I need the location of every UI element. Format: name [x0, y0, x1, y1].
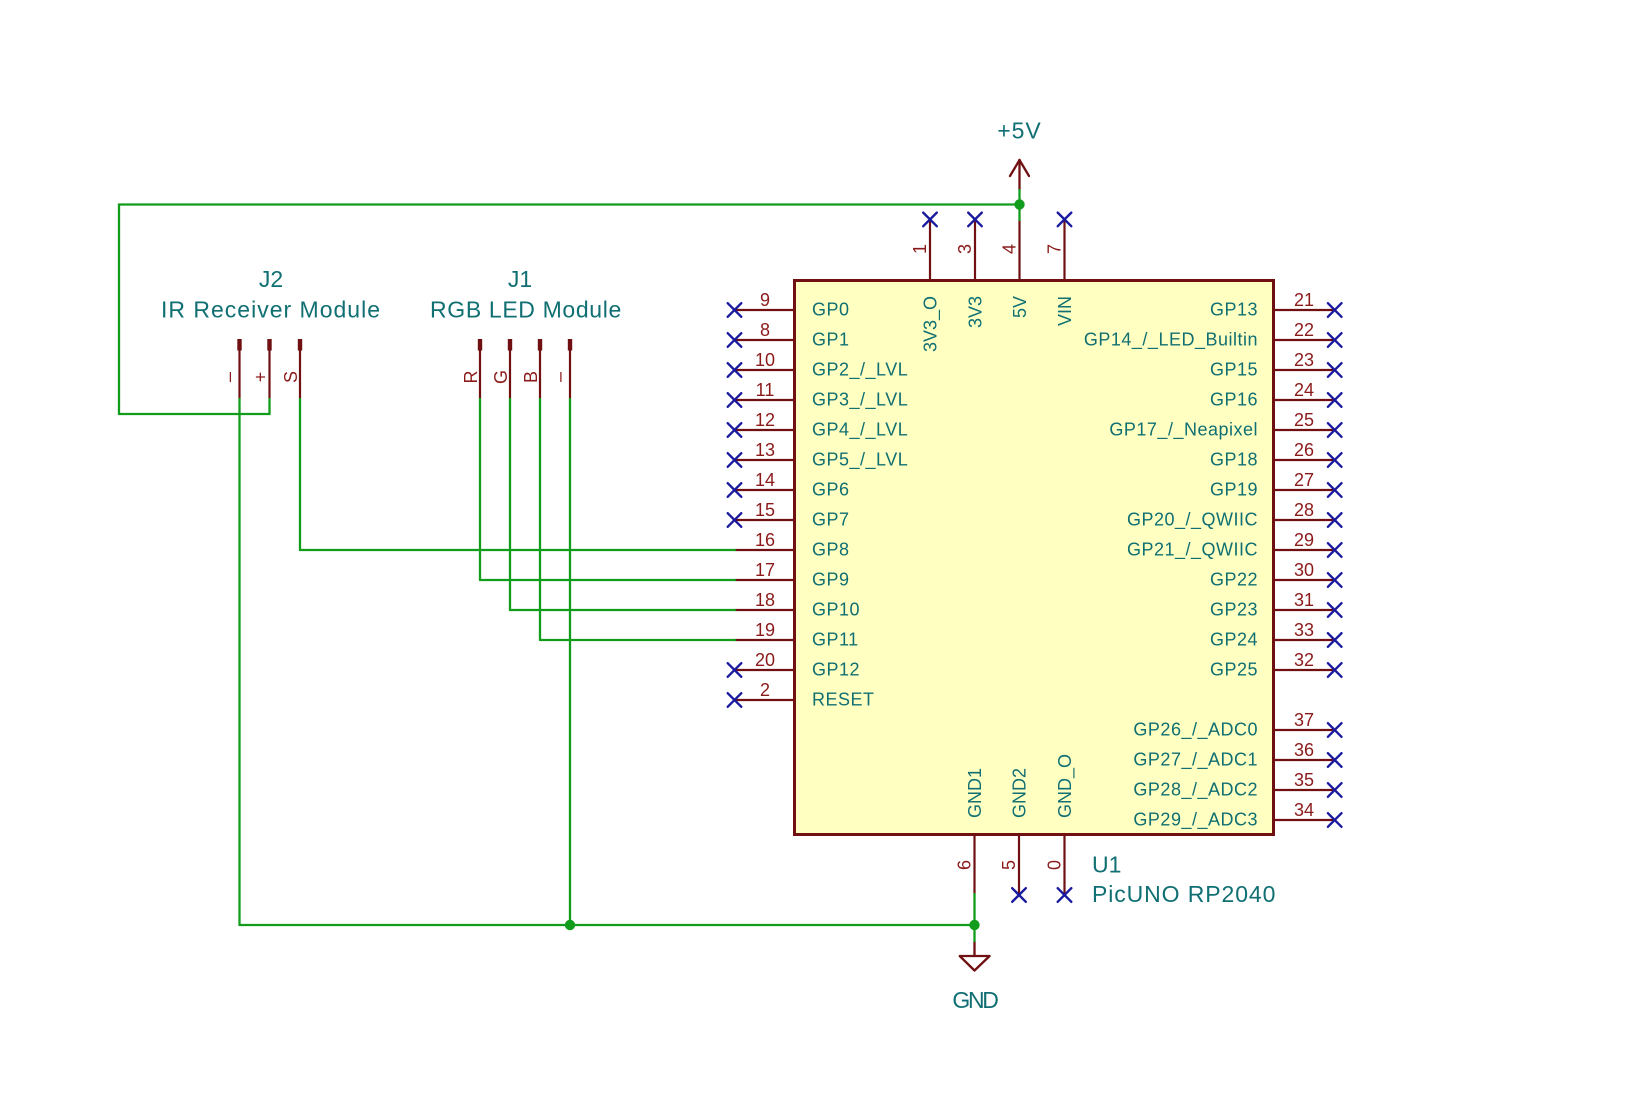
- svg-text:G: G: [491, 370, 511, 384]
- svg-text:33: 33: [1294, 620, 1314, 640]
- pin 25 (GP17_/_Neapixel) right: [1109, 410, 1341, 441]
- pin 12 (GP4_/_LVL) left: [728, 410, 909, 441]
- svg-text:20: 20: [755, 650, 775, 670]
- svg-text:GP18: GP18: [1210, 450, 1258, 470]
- svg-text:7: 7: [1045, 244, 1065, 254]
- wire J2 minus vertical: [238, 399, 240, 925]
- svg-text:24: 24: [1294, 380, 1314, 400]
- svg-text:U1: U1: [1092, 852, 1121, 878]
- svg-text:30: 30: [1294, 560, 1314, 580]
- svg-text:+: +: [251, 372, 271, 383]
- svg-text:GP28_/_ADC2: GP28_/_ADC2: [1133, 780, 1258, 801]
- svg-text:3V3: 3V3: [965, 296, 985, 328]
- svg-text:17: 17: [755, 560, 775, 580]
- svg-text:27: 27: [1294, 470, 1314, 490]
- pin 16 (GP8) left: [735, 530, 850, 560]
- pin 33 (GP24) right: [1210, 620, 1342, 650]
- pin 14 (GP6) left: [728, 470, 850, 500]
- wire +5V horizontal top: [119, 203, 1020, 205]
- wire R to GP9 horizontal: [480, 579, 735, 581]
- svg-text:GP20_/_QWIIC: GP20_/_QWIIC: [1127, 510, 1258, 531]
- pin 30 (GP22) right: [1210, 560, 1342, 590]
- pin 3 (3V3) top: [955, 213, 985, 328]
- svg-text:0: 0: [1045, 860, 1065, 870]
- pin 1 (3V3_O) top: [910, 213, 941, 352]
- svg-text:GP15: GP15: [1210, 360, 1258, 380]
- svg-text:11: 11: [756, 380, 775, 400]
- svg-text:18: 18: [755, 590, 775, 610]
- svg-text:8: 8: [760, 320, 770, 340]
- svg-text:15: 15: [755, 500, 775, 520]
- svg-text:16: 16: [755, 530, 775, 550]
- wire J2 plus vertical: [268, 399, 270, 414]
- svg-text:5V: 5V: [1010, 296, 1030, 318]
- svg-text:19: 19: [755, 620, 775, 640]
- wire J1 minus vertical: [569, 399, 571, 925]
- wire GND1 vertical: [973, 894, 975, 941]
- J1 pin G: [491, 339, 512, 399]
- svg-text:GP9: GP9: [812, 570, 850, 590]
- svg-text:1: 1: [910, 244, 930, 254]
- J2 pin +: [251, 339, 272, 399]
- pin 10 (GP2_/_LVL) left: [728, 350, 909, 381]
- pin 34 (GP29_/_ADC3) right: [1133, 800, 1341, 831]
- pin 8 (GP1) left: [728, 320, 850, 350]
- pin 15 (GP7) left: [728, 500, 850, 530]
- pin 17 (GP9) left: [735, 560, 850, 590]
- svg-text:R: R: [461, 371, 481, 384]
- pin 13 (GP5_/_LVL) left: [728, 440, 909, 471]
- pin 27 (GP19) right: [1210, 470, 1342, 500]
- svg-text:3V3_O: 3V3_O: [920, 296, 941, 352]
- svg-text:GP17_/_Neapixel: GP17_/_Neapixel: [1109, 420, 1258, 441]
- J2 pin S: [281, 339, 302, 399]
- pin 21 (GP13) right: [1210, 290, 1342, 320]
- wire S to GP8 horizontal: [300, 549, 735, 551]
- svg-text:GP11: GP11: [812, 630, 859, 650]
- pin 29 (GP21_/_QWIIC) right: [1127, 530, 1342, 561]
- wire +5V vertical at power symbol: [1018, 190, 1020, 220]
- svg-text:B: B: [521, 371, 541, 383]
- svg-text:14: 14: [755, 470, 775, 490]
- pin 0 (GND_O) bottom: [1045, 754, 1076, 902]
- pin 26 (GP18) right: [1210, 440, 1342, 470]
- pin 36 (GP27_/_ADC1) right: [1133, 740, 1341, 771]
- svg-text:GND_O: GND_O: [1055, 754, 1076, 818]
- svg-text:23: 23: [1294, 350, 1314, 370]
- svg-text:3: 3: [955, 244, 975, 254]
- svg-text:GND: GND: [952, 987, 998, 1013]
- pin 20 (GP12) left: [728, 650, 860, 680]
- wire J2 S vertical: [299, 399, 301, 550]
- pin 22 (GP14_/_LED_Builtin) right: [1084, 320, 1342, 351]
- svg-text:GP4_/_LVL: GP4_/_LVL: [812, 420, 908, 441]
- pin 35 (GP28_/_ADC2) right: [1133, 770, 1341, 801]
- pin 2 (RESET) left: [728, 680, 875, 710]
- svg-text:GP26_/_ADC0: GP26_/_ADC0: [1133, 720, 1258, 741]
- svg-text:12: 12: [755, 410, 775, 430]
- pin 24 (GP16) right: [1210, 380, 1342, 410]
- svg-text:–: –: [550, 372, 570, 382]
- svg-text:GP14_/_LED_Builtin: GP14_/_LED_Builtin: [1084, 330, 1258, 351]
- svg-text:29: 29: [1294, 530, 1314, 550]
- svg-text:GP27_/_ADC1: GP27_/_ADC1: [1133, 750, 1258, 771]
- svg-text:GP19: GP19: [1210, 480, 1258, 500]
- svg-text:10: 10: [755, 350, 775, 370]
- junction ground bus / GND1: [969, 920, 979, 930]
- IC U1 body: [795, 281, 1274, 835]
- svg-text:GP2_/_LVL: GP2_/_LVL: [812, 360, 908, 381]
- svg-text:–: –: [219, 372, 239, 382]
- svg-text:35: 35: [1294, 770, 1314, 790]
- pin 18 (GP10) left: [735, 590, 860, 620]
- J1 pin R: [461, 339, 482, 399]
- svg-text:28: 28: [1294, 500, 1314, 520]
- svg-text:31: 31: [1294, 590, 1314, 610]
- svg-text:IR Receiver Module: IR Receiver Module: [161, 297, 381, 323]
- svg-text:37: 37: [1294, 710, 1314, 730]
- J1 pin –: [550, 339, 573, 399]
- svg-text:GP6: GP6: [812, 480, 850, 500]
- svg-text:GP7: GP7: [812, 510, 850, 530]
- J1 pin B: [521, 339, 542, 399]
- svg-text:25: 25: [1294, 410, 1314, 430]
- wire J1 B vertical: [539, 399, 541, 640]
- svg-text:34: 34: [1294, 800, 1314, 820]
- svg-text:21: 21: [1294, 290, 1314, 310]
- svg-text:RESET: RESET: [812, 690, 875, 710]
- wire J1 G vertical: [509, 399, 511, 610]
- pin 37 (GP26_/_ADC0) right: [1133, 710, 1341, 741]
- svg-text:5: 5: [999, 860, 1019, 870]
- ground symbol GND: [952, 941, 998, 1013]
- pin 11 (GP3_/_LVL) left: [728, 380, 909, 411]
- junction J1 minus / ground bus: [565, 920, 575, 930]
- pin 19 (GP11) left: [735, 620, 859, 650]
- svg-text:4: 4: [1000, 244, 1020, 254]
- power symbol +5V: [997, 118, 1042, 191]
- svg-text:S: S: [281, 371, 301, 383]
- pin 31 (GP23) right: [1210, 590, 1342, 620]
- svg-text:GP29_/_ADC3: GP29_/_ADC3: [1133, 810, 1258, 831]
- pin 32 (GP25) right: [1210, 650, 1342, 680]
- junction at +5V pin 4: [1014, 199, 1024, 209]
- wire B to GP11 horizontal: [540, 639, 735, 641]
- pin 28 (GP20_/_QWIIC) right: [1127, 500, 1342, 531]
- wire G to GP10 horizontal: [510, 609, 735, 611]
- wire +5V lower horizontal to J2 plus: [119, 413, 270, 415]
- svg-text:GP23: GP23: [1210, 600, 1258, 620]
- J2 pin –: [219, 339, 242, 399]
- pin 6 (GND1) bottom: [955, 768, 985, 894]
- svg-text:GP21_/_QWIIC: GP21_/_QWIIC: [1127, 540, 1258, 561]
- svg-text:VIN: VIN: [1055, 296, 1075, 326]
- svg-text:9: 9: [760, 290, 770, 310]
- svg-text:GP13: GP13: [1210, 300, 1258, 320]
- svg-text:GP24: GP24: [1210, 630, 1258, 650]
- svg-text:GP5_/_LVL: GP5_/_LVL: [812, 450, 908, 471]
- svg-text:36: 36: [1294, 740, 1314, 760]
- svg-text:GP25: GP25: [1210, 660, 1258, 680]
- svg-text:PicUNO RP2040: PicUNO RP2040: [1092, 881, 1276, 907]
- svg-text:GP0: GP0: [812, 300, 850, 320]
- svg-text:+5V: +5V: [997, 118, 1042, 144]
- wire J1 R vertical: [479, 399, 481, 580]
- svg-text:J1: J1: [508, 266, 532, 292]
- svg-text:26: 26: [1294, 440, 1314, 460]
- svg-text:6: 6: [955, 860, 975, 870]
- svg-text:13: 13: [755, 440, 775, 460]
- svg-text:RGB LED Module: RGB LED Module: [430, 297, 622, 323]
- wire ground bus horizontal: [240, 924, 975, 926]
- pin 5 (GND2) bottom: [999, 768, 1029, 902]
- svg-text:GP3_/_LVL: GP3_/_LVL: [812, 390, 908, 411]
- svg-text:GP8: GP8: [812, 540, 850, 560]
- pin 9 (GP0) left: [728, 290, 850, 320]
- svg-text:GND1: GND1: [965, 768, 985, 818]
- svg-text:32: 32: [1294, 650, 1314, 670]
- svg-text:GP10: GP10: [812, 600, 860, 620]
- svg-text:GP1: GP1: [812, 330, 850, 350]
- svg-text:GP16: GP16: [1210, 390, 1258, 410]
- pin 7 (VIN) top: [1045, 213, 1075, 326]
- wire +5V left vertical: [118, 205, 120, 415]
- svg-text:22: 22: [1294, 320, 1314, 340]
- pin 23 (GP15) right: [1210, 350, 1342, 380]
- svg-text:GP12: GP12: [812, 660, 860, 680]
- pin 4 (5V) top: [1000, 220, 1030, 318]
- svg-text:J2: J2: [259, 266, 283, 292]
- svg-text:2: 2: [760, 680, 770, 700]
- svg-text:GND2: GND2: [1009, 768, 1029, 818]
- svg-text:GP22: GP22: [1210, 570, 1258, 590]
